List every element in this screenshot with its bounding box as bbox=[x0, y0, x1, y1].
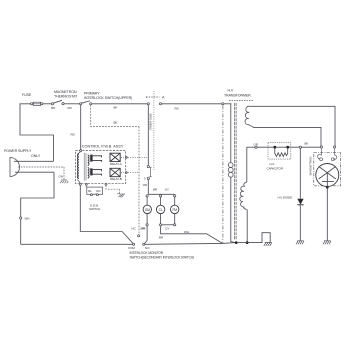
ground (DDM) bbox=[117, 194, 125, 198]
svg-text:CL: CL bbox=[159, 208, 163, 212]
svg-text:WH: WH bbox=[184, 230, 189, 234]
HV transformer primary bbox=[228, 104, 235, 243]
chassis boundary dash-dot line bbox=[222, 106, 224, 243]
svg-text:GY: GY bbox=[165, 226, 169, 230]
relay A contact box bbox=[110, 153, 122, 166]
label PRIMARY INTERLOCK SWITCH(UPPER) bbox=[84, 92, 132, 101]
svg-text:THERMOSTAT: THERMOSTAT bbox=[54, 94, 78, 98]
label POWER SUPPLY ONLY bbox=[4, 149, 41, 158]
fuse F1 bbox=[31, 102, 43, 105]
svg-text:SWITCH(SECONDARY INTERLOCK SWI: SWITCH(SECONDARY INTERLOCK SWITCH) bbox=[130, 255, 195, 259]
label D.D.M SWITCH bbox=[89, 203, 100, 211]
HV transformer filament winding bbox=[245, 106, 335, 146]
motor top rail bbox=[148, 193, 174, 195]
magnetron thermostat S1 bbox=[51, 100, 64, 105]
wire to transformer primary bbox=[224, 103, 232, 105]
svg-text:POWER SUPPLY: POWER SUPPLY bbox=[4, 149, 32, 153]
wire from plug hot up to fuse bbox=[20, 104, 54, 162]
label MAGNETRON THERMOSTAT bbox=[54, 90, 78, 98]
label H.V. CAPACITOR bbox=[267, 162, 284, 170]
connector A nodes bbox=[146, 96, 165, 105]
ground (transformer) bbox=[264, 242, 272, 246]
rail to transformer bottom bbox=[223, 242, 236, 245]
magnetron circle V1 bbox=[316, 164, 339, 187]
neutral wire from plug to bottom rail bbox=[21, 172, 54, 244]
HV capacitor bbox=[268, 143, 291, 159]
GM lead to NO contact, OR/NC labels bbox=[145, 226, 148, 244]
junction dots bbox=[235, 241, 238, 244]
svg-text:MAGNETRON: MAGNETRON bbox=[54, 90, 77, 94]
label INTERLOCK MONITOR SWITCH bbox=[130, 251, 195, 260]
svg-text:COM: COM bbox=[128, 246, 135, 250]
svg-text:FUSE: FUSE bbox=[22, 93, 32, 97]
NC contact of monitor switch bbox=[138, 235, 140, 237]
LV transformer secondary windings bbox=[88, 155, 89, 178]
svg-text:CAPACITOR: CAPACITOR bbox=[267, 166, 284, 170]
HV transformer label bbox=[224, 89, 253, 101]
svg-text:GN: GN bbox=[59, 175, 63, 179]
BK dashed vertical to NC contact bbox=[138, 127, 140, 235]
svg-text:GM: GM bbox=[145, 208, 150, 212]
bottom rail to monitor switch bbox=[21, 243, 133, 245]
svg-text:WH: WH bbox=[25, 217, 30, 221]
relay A coil bbox=[90, 155, 101, 162]
svg-text:GN: GN bbox=[96, 189, 100, 193]
D.D.M switch box bbox=[86, 185, 102, 196]
wire connector to HV transformer, label RD bbox=[162, 103, 222, 105]
HV diode bbox=[297, 148, 303, 241]
wire fuse to thermostat bbox=[43, 103, 52, 105]
HV transformer core bbox=[235, 103, 236, 240]
ground (diode) bbox=[296, 241, 304, 245]
CL lead down to WH line bbox=[161, 226, 223, 244]
svg-text:PRIMARY: PRIMARY bbox=[84, 92, 100, 96]
svg-text:CONTROL P.W.B. ASSY: CONTROL P.W.B. ASSY bbox=[82, 144, 124, 148]
svg-text:SWITCH: SWITCH bbox=[89, 207, 100, 211]
magnetron box bbox=[314, 146, 341, 186]
rail bump to ground bbox=[247, 233, 270, 243]
svg-text:RELAY-B: RELAY-B bbox=[110, 177, 122, 181]
HV cap line bbox=[247, 142, 320, 149]
svg-text:TRANSFORMER: TRANSFORMER bbox=[224, 94, 251, 98]
motor FM bbox=[171, 197, 179, 226]
wire interlock left contact down to control board bbox=[80, 105, 82, 151]
magnetron ground lead bbox=[326, 186, 329, 241]
svg-text:BL: BL bbox=[88, 189, 92, 193]
wire interlock to connector A , label BK bbox=[92, 103, 147, 105]
relay B dotted line to BK column bbox=[126, 172, 128, 174]
svg-text:INTERLOCK MONITOR: INTERLOCK MONITOR bbox=[130, 251, 164, 255]
power plug P1 bbox=[10, 158, 64, 177]
svg-text:RELAY-A: RELAY-A bbox=[110, 162, 122, 166]
timer column: node on top rail down to timer switch bbox=[143, 105, 152, 194]
primary interlock switch (upper) bbox=[80, 101, 92, 105]
svg-text:GY: GY bbox=[165, 188, 169, 192]
svg-text:H.V DIODE: H.V DIODE bbox=[278, 196, 293, 200]
wire control pin down to monitor switch COM bbox=[80, 185, 133, 243]
node at chassis boundary bbox=[222, 103, 224, 105]
ground (magnetron) bbox=[323, 241, 331, 245]
svg-text:INTERLOCK SWITCH(UPPER): INTERLOCK SWITCH(UPPER) bbox=[84, 96, 132, 100]
pin at box top bbox=[80, 150, 82, 152]
motor CL bbox=[156, 197, 164, 226]
svg-text:BK: BK bbox=[114, 106, 118, 110]
svg-text:BK: BK bbox=[114, 121, 118, 125]
dotted vertical right of timer column bbox=[153, 91, 155, 170]
svg-text:ONLY: ONLY bbox=[31, 154, 41, 158]
CL-FM bottom link, GY bbox=[162, 224, 174, 226]
relay A dotted line to timer column bbox=[126, 157, 128, 159]
HV transformer secondary bbox=[240, 147, 247, 241]
LV transformer T1 primary bbox=[78, 152, 81, 184]
motor GM bbox=[143, 197, 151, 226]
interlock sw lower wire BK dashed bbox=[91, 105, 139, 127]
control board box bbox=[76, 151, 126, 184]
svg-text:MAGNETRON: MAGNETRON bbox=[308, 157, 312, 176]
svg-text:FM: FM bbox=[172, 208, 177, 212]
GN ground wire bbox=[59, 167, 69, 183]
interlock monitor switch bbox=[128, 227, 150, 251]
relay B coil bbox=[90, 168, 101, 175]
svg-text:BK: BK bbox=[305, 142, 309, 146]
node WH bbox=[20, 217, 22, 219]
svg-text:H.V: H.V bbox=[228, 89, 234, 93]
relay B contact box bbox=[110, 168, 122, 181]
DDM dashed to ground bbox=[106, 185, 120, 193]
rail from NO to right (dashed) bbox=[145, 242, 223, 245]
svg-text:NO: NO bbox=[145, 246, 150, 250]
wire thermostat to interlock bbox=[64, 103, 80, 105]
control board bottom pins bbox=[79, 183, 107, 185]
LV transformer core bbox=[84, 153, 86, 181]
svg-text:(TIMER S/W): (TIMER S/W) bbox=[148, 114, 152, 131]
